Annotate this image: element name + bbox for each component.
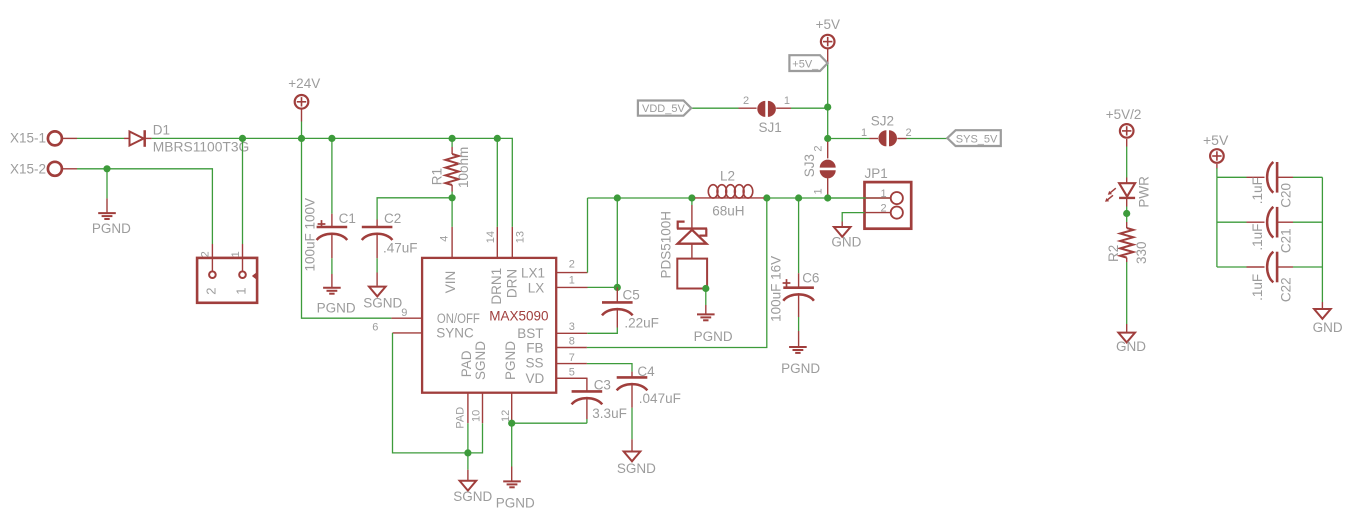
svg-text:.47uF: .47uF — [383, 240, 418, 255]
power +24V — [288, 76, 320, 138]
ground PGND under IC — [496, 423, 535, 511]
svg-text:PGND: PGND — [317, 301, 356, 316]
label C22 value — [1250, 274, 1265, 301]
svg-text:68uH: 68uH — [712, 203, 744, 218]
ground PGND at X15-2 — [92, 169, 131, 236]
svg-text:+24V: +24V — [288, 76, 320, 91]
svg-text:1: 1 — [784, 95, 790, 107]
label SJ3 — [802, 154, 817, 177]
svg-text:2: 2 — [200, 251, 212, 257]
svg-text:VDD_5V: VDD_5V — [642, 103, 685, 115]
svg-text:2: 2 — [880, 202, 886, 214]
jumper SJ1 — [757, 101, 827, 117]
connector X15 body — [197, 258, 257, 303]
svg-text:C1: C1 — [339, 211, 356, 226]
svg-text:C21: C21 — [1279, 228, 1294, 253]
svg-text:+5V_: +5V_ — [792, 58, 819, 70]
diode D1 — [124, 130, 152, 147]
pin LX 1 — [528, 274, 588, 295]
wire SYNC to SGND net — [393, 333, 468, 453]
svg-text:SGND: SGND — [617, 461, 656, 476]
wire LX1 riser — [587, 198, 589, 273]
svg-text:.22uF: .22uF — [624, 315, 659, 330]
label PWR — [1136, 176, 1151, 208]
svg-text:1: 1 — [880, 188, 886, 200]
svg-text:C5: C5 — [623, 288, 640, 303]
svg-text:2: 2 — [743, 95, 749, 107]
jumper SJ3 — [820, 142, 836, 199]
junction SJ3 bottom — [824, 194, 831, 201]
pin LX1 2 — [521, 258, 588, 280]
junction R1 bottom — [449, 194, 456, 201]
label SJ2 pin2 — [905, 127, 911, 139]
svg-text:SS: SS — [525, 356, 543, 371]
label SJ1 pin1 — [784, 95, 790, 107]
junction LED cathode — [1123, 210, 1130, 217]
ground PGND at C1 — [317, 258, 356, 315]
svg-text:1: 1 — [861, 127, 867, 139]
svg-text:PAD: PAD — [455, 407, 467, 429]
svg-text:PAD: PAD — [459, 350, 474, 377]
svg-text:PGND: PGND — [92, 221, 131, 236]
label C4 — [637, 364, 655, 379]
svg-text:C20: C20 — [1279, 183, 1294, 208]
svg-text:100uF 16V: 100uF 16V — [769, 256, 784, 322]
svg-text:14: 14 — [485, 231, 497, 243]
svg-text:R2: R2 — [1106, 245, 1121, 262]
op-amp U1 MAX5090 body — [422, 258, 556, 393]
connector JP1 pin 2 — [842, 202, 903, 221]
svg-text:3.3uF: 3.3uF — [592, 406, 627, 421]
label L2 — [720, 168, 735, 183]
resistor R2 — [1120, 222, 1133, 324]
svg-text:ON/OFF: ON/OFF — [437, 311, 480, 326]
svg-text:L2: L2 — [720, 168, 735, 183]
svg-text:SJ2: SJ2 — [871, 113, 894, 128]
junction SGND net — [464, 449, 471, 456]
svg-text:2: 2 — [569, 258, 575, 270]
junction X15-2 — [103, 165, 110, 172]
junction PDS5100H pad — [702, 285, 709, 292]
capacitor C6 — [783, 198, 814, 317]
svg-text:330: 330 — [1134, 241, 1149, 264]
junction C6 top — [795, 194, 802, 201]
svg-text:2: 2 — [905, 127, 911, 139]
label R1 value — [456, 147, 471, 188]
svg-text:4: 4 — [439, 236, 451, 242]
svg-text:C3: C3 — [594, 378, 611, 393]
label C3 value — [592, 406, 627, 421]
pin DRN1 14 — [485, 138, 504, 304]
svg-text:5: 5 — [569, 367, 575, 379]
ground SGND under IC — [453, 453, 492, 504]
flag VDD_5V — [638, 101, 691, 116]
junction +24V — [298, 135, 305, 142]
ground GND at C22 — [1313, 302, 1343, 335]
svg-text:C6: C6 — [802, 270, 819, 285]
pin SS 7 — [525, 352, 586, 371]
svg-text:SYS_5V: SYS_5V — [956, 134, 998, 146]
wire C5 riser — [616, 198, 618, 287]
svg-text:1: 1 — [234, 288, 249, 295]
svg-text:+5V/2: +5V/2 — [1106, 107, 1142, 122]
svg-text:D1: D1 — [153, 122, 170, 137]
wire SJ2 left — [828, 138, 878, 140]
pin BST 3 — [517, 321, 587, 341]
svg-text:.1uF: .1uF — [1250, 177, 1265, 204]
svg-text:DRN1: DRN1 — [489, 268, 504, 305]
pin PAD — [455, 350, 474, 428]
wire switch node row — [588, 197, 891, 199]
label C5 value — [624, 315, 659, 330]
pin VD 5 — [526, 367, 587, 386]
svg-text:PGND: PGND — [503, 341, 518, 380]
svg-text:100uF 100V: 100uF 100V — [302, 198, 317, 272]
label C1 value — [302, 198, 317, 272]
label SJ3 pin2 — [813, 145, 825, 151]
svg-text:10ohm: 10ohm — [456, 147, 471, 188]
wire C5 to BST — [587, 328, 617, 334]
wire cap block right — [1321, 177, 1323, 302]
svg-text:SYNC: SYNC — [436, 326, 474, 341]
ground PGND at D2 — [694, 289, 733, 345]
label JP1 — [865, 166, 888, 181]
ground PGND at C6 — [781, 317, 820, 376]
junction SJ2 — [824, 135, 831, 142]
label C6 — [802, 270, 819, 285]
connector JP1 body — [865, 182, 912, 229]
label MBRS1100T3G — [153, 140, 250, 155]
wire main +24V rail — [152, 138, 513, 227]
svg-text:10: 10 — [471, 410, 483, 422]
svg-text:LX1: LX1 — [521, 266, 545, 281]
svg-text:SJ3: SJ3 — [802, 154, 817, 177]
svg-text:SGND: SGND — [453, 489, 492, 504]
ground GND at R2 — [1116, 324, 1146, 354]
svg-text:GND: GND — [1116, 339, 1146, 354]
flag +5V_ — [789, 55, 827, 71]
svg-text:PGND: PGND — [694, 329, 733, 344]
power +5V right — [1203, 132, 1229, 177]
svg-text:6: 6 — [372, 322, 378, 334]
pin DRN 13 — [504, 227, 526, 298]
svg-text:.1uF: .1uF — [1250, 224, 1265, 251]
label SJ2 pin1 — [861, 127, 867, 139]
flag SYS_5V — [947, 130, 1001, 146]
label C2 — [384, 211, 401, 226]
label C22 — [1279, 277, 1294, 302]
label SJ1 pin2 — [743, 95, 749, 107]
capacitor C1 — [317, 214, 348, 258]
svg-text:1: 1 — [813, 188, 825, 194]
junction SJ1 — [824, 104, 831, 111]
power +5V — [816, 17, 840, 107]
ground SGND at C2 — [363, 258, 402, 310]
svg-text:PGND: PGND — [781, 361, 820, 376]
svg-text:JP1: JP1 — [865, 166, 888, 181]
wire LX to C5 — [588, 286, 618, 288]
junction C1 top — [328, 135, 335, 142]
wire pin10 down — [468, 423, 483, 453]
svg-text:1: 1 — [569, 274, 575, 286]
svg-text:PWR: PWR — [1136, 176, 1151, 208]
pin X15-2 — [10, 161, 77, 176]
pin X15-1 — [10, 131, 77, 146]
label R2 value — [1134, 241, 1149, 264]
wire R1 to C2 — [377, 198, 452, 220]
capacitor C21 — [1217, 207, 1323, 238]
label C4 value — [639, 391, 681, 406]
svg-text:X15-1: X15-1 — [10, 131, 46, 146]
svg-text:C4: C4 — [637, 364, 655, 379]
svg-text:9: 9 — [401, 307, 407, 319]
svg-text:3: 3 — [569, 321, 575, 333]
wire conn pin1 riser — [242, 138, 244, 244]
label SJ2 — [871, 113, 894, 128]
label C2 value — [383, 240, 418, 255]
svg-text:2: 2 — [203, 288, 218, 295]
svg-text:13: 13 — [514, 231, 526, 243]
svg-text:BST: BST — [517, 326, 543, 341]
connector X15 pin 2 — [200, 244, 219, 295]
svg-text:7: 7 — [569, 352, 575, 364]
label PDS5100H — [659, 211, 674, 279]
label L2 value — [712, 203, 744, 218]
capacitor C3 — [556, 378, 602, 423]
svg-text:SGND: SGND — [473, 341, 488, 380]
diode D2 PDS5100H — [677, 198, 707, 289]
svg-text:GND: GND — [1313, 320, 1343, 335]
power +5V/2 — [1106, 107, 1142, 177]
pin SYNC 6 — [372, 322, 474, 341]
label D1 — [153, 122, 170, 137]
jumper SJ2 — [878, 130, 947, 146]
wire X15-2 run — [77, 169, 212, 244]
svg-text:SJ1: SJ1 — [759, 120, 782, 135]
wire SS to C4 — [587, 364, 632, 372]
connector JP1 pin 1 — [828, 188, 903, 204]
svg-text:.1uF: .1uF — [1250, 274, 1265, 301]
capacitor C2 — [362, 220, 393, 259]
capacitor C4 — [617, 372, 648, 408]
label C1 — [339, 211, 356, 226]
connector X15 pin 1 — [230, 244, 249, 295]
pin VIN 4 — [439, 198, 459, 293]
junction PDS5100H top — [688, 194, 695, 201]
label SJ1 — [759, 120, 782, 135]
capacitor C20 — [1217, 162, 1323, 193]
svg-text:.047uF: .047uF — [639, 391, 681, 406]
svg-text:R1: R1 — [430, 168, 445, 185]
svg-text:VD: VD — [526, 371, 545, 386]
label C20 value — [1250, 177, 1265, 204]
junction D1 out — [239, 135, 246, 142]
svg-text:8: 8 — [569, 336, 575, 348]
junction C5 row — [614, 194, 621, 201]
junction DRN1 top — [494, 135, 501, 142]
svg-text:MBRS1100T3G: MBRS1100T3G — [153, 140, 250, 155]
svg-text:LX: LX — [528, 280, 545, 295]
pin FB 8 — [526, 336, 587, 356]
svg-text:VIN: VIN — [443, 271, 458, 294]
junction FB — [763, 194, 770, 201]
wire pin12 to C3 — [512, 422, 587, 424]
label C5 — [623, 288, 640, 303]
junction C5 top — [614, 284, 621, 291]
wire VDD to SJ1 — [691, 107, 756, 109]
svg-text:GND: GND — [831, 235, 861, 250]
svg-text:FB: FB — [526, 340, 543, 355]
label R1 — [430, 168, 445, 185]
inductor L2 — [695, 185, 764, 198]
svg-text:X15-2: X15-2 — [10, 161, 46, 176]
wire FB run — [587, 198, 767, 348]
svg-text:C22: C22 — [1279, 277, 1294, 302]
svg-text:+5V: +5V — [816, 17, 840, 32]
svg-text:PDS5100H: PDS5100H — [659, 211, 674, 279]
label C20 — [1279, 183, 1294, 208]
wire +24V to ON/OFF — [302, 138, 392, 318]
svg-text:1: 1 — [230, 251, 242, 257]
pin PGND 12 — [500, 341, 518, 423]
label C3 — [594, 378, 611, 393]
ground SGND at C4 — [617, 408, 656, 476]
label R2 — [1106, 245, 1121, 262]
svg-text:+5V: +5V — [1203, 132, 1229, 148]
resistor R1 — [446, 138, 459, 197]
LED PWR — [1105, 178, 1135, 223]
wire C1 riser — [331, 138, 333, 213]
svg-text:C2: C2 — [384, 211, 401, 226]
label SJ3 pin1 — [813, 188, 825, 194]
junction PGND pin12 — [508, 420, 515, 427]
wire cap block left — [1216, 177, 1218, 267]
svg-text:MAX5090: MAX5090 — [489, 309, 548, 324]
label MAX5090 — [489, 309, 548, 324]
svg-text:SGND: SGND — [363, 295, 402, 310]
label C6 value — [769, 256, 784, 322]
wire +5V junctions — [827, 107, 829, 138]
svg-text:PGND: PGND — [496, 496, 535, 511]
label C21 value — [1250, 224, 1265, 251]
label C21 — [1279, 228, 1294, 253]
capacitor C5 — [602, 287, 633, 327]
capacitor C22 — [1217, 252, 1323, 283]
svg-text:DRN: DRN — [504, 269, 519, 298]
svg-text:2: 2 — [813, 145, 825, 151]
junction R1 top — [449, 135, 456, 142]
pin SGND 10 — [471, 341, 489, 423]
wire PAD down — [467, 423, 469, 453]
pin ON/OFF 9 — [391, 307, 480, 326]
wire X15-1 to D1 — [77, 137, 124, 139]
ground GND at JP1 — [831, 222, 861, 250]
